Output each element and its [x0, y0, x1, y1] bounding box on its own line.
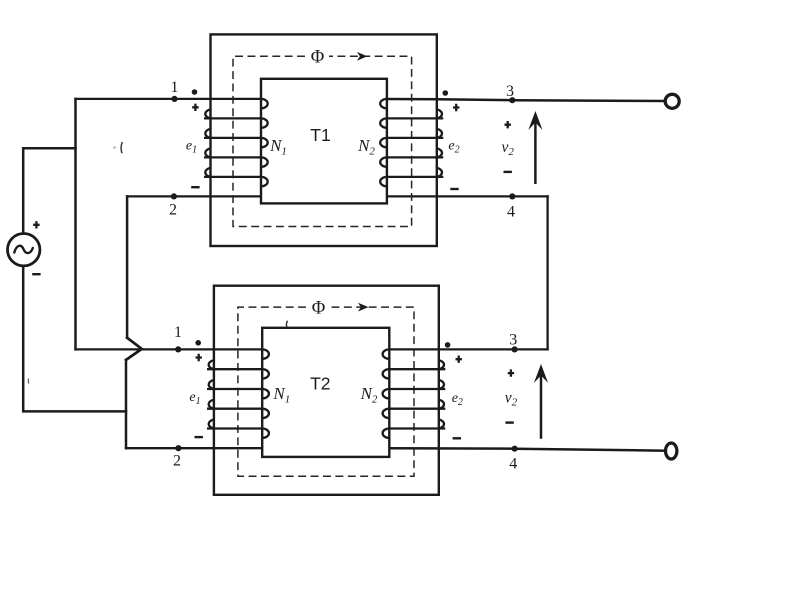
junction dot T2 terminal 2: [175, 445, 181, 451]
T2 secondary - polarity: [453, 437, 461, 439]
wire T1 terminal-4 lead: [387, 195, 548, 197]
transformer T1 outer boundary box: [211, 34, 437, 246]
wire T1 terminal-3 lead to output terminal: [387, 99, 665, 101]
wire T1 terminal-1 lead (node a): [76, 98, 262, 100]
transformer T2 outer boundary box: [214, 286, 439, 495]
T2 primary - polarity: [195, 436, 203, 438]
T1 core box: [261, 79, 387, 204]
T1 output + label: [505, 121, 511, 128]
wire T1 terminal-2 down to bottom node: [126, 196, 129, 337]
stray scan tick above T2 core: [286, 321, 287, 327]
junction dot T1 terminal 1: [171, 96, 177, 102]
svg-text:4: 4: [509, 456, 517, 473]
T2 secondary winding N2 coil: [383, 349, 446, 438]
T1 output - label: [504, 171, 512, 173]
ac voltage source: [8, 234, 40, 266]
junction dot T1 terminal 3: [509, 97, 515, 103]
wire T2 terminal-2 lead: [126, 447, 262, 449]
wire T2 terminal-4 lead to output terminal: [389, 448, 665, 451]
stray scan speck: [113, 146, 116, 149]
T2 primary winding N1 coil: [207, 349, 269, 438]
T1 secondary polarity dot: [443, 90, 449, 96]
T2 secondary + polarity: [456, 356, 462, 363]
T2 output terminal circle: [666, 443, 677, 459]
T1 output terminal circle: [665, 94, 679, 108]
wire T1 terminal-2 lead: [127, 195, 261, 197]
junction dot T2 terminal 3: [511, 346, 517, 352]
T2 primary + polarity: [196, 354, 202, 361]
wire left bus vertical (node 1 bus): [74, 99, 77, 350]
wire T1 terminal-4 down to T2 terminal-3: [546, 196, 548, 349]
junction dot T1 terminal 4: [509, 193, 515, 199]
wire T2 terminal-1 lead: [76, 348, 263, 350]
svg-text:Φ: Φ: [312, 298, 326, 318]
T1 primary winding N1 coil: [204, 99, 268, 186]
svg-text:2: 2: [173, 453, 181, 470]
T2 secondary polarity dot: [445, 342, 451, 348]
wire bottom node vertical to T2 terminal 2: [125, 360, 128, 448]
T1 secondary - polarity: [450, 188, 458, 190]
T1 primary polarity dot: [192, 89, 198, 95]
wire source positive to left bus: [23, 148, 75, 233]
junction dot T2 terminal 4: [511, 446, 517, 452]
T2 core box: [262, 328, 389, 457]
T2 output + label: [508, 369, 514, 376]
T1 secondary winding N2 coil: [380, 99, 443, 186]
junction dot T1 terminal 2: [171, 193, 177, 199]
T2 primary polarity dot: [195, 340, 201, 346]
svg-text:T1: T1: [310, 125, 330, 145]
svg-text:1: 1: [174, 324, 182, 341]
wire crossover hop at T2 terminal 1: [126, 338, 142, 360]
source + label: [33, 221, 39, 228]
T1 primary - polarity: [191, 186, 199, 188]
stray scan tick left margin: [27, 379, 29, 384]
source - label: [32, 273, 40, 275]
svg-text:1: 1: [171, 79, 179, 96]
svg-text:Φ: Φ: [311, 48, 325, 68]
svg-text:3: 3: [509, 332, 517, 349]
T2 output voltage reference arrow: [534, 364, 548, 439]
svg-text:4: 4: [507, 204, 515, 221]
T1 flux direction arrowhead: [358, 53, 366, 60]
T2 output - label: [505, 421, 513, 423]
junction dot T2 terminal 1: [175, 346, 181, 352]
T1 secondary + polarity: [453, 104, 459, 111]
wire T2 terminal-3 lead: [389, 348, 547, 350]
T2 dashed flux path loop: [238, 307, 414, 476]
svg-text:T2: T2: [310, 374, 330, 394]
T2 flux direction arrowhead: [359, 304, 367, 311]
svg-text:2: 2: [169, 202, 177, 219]
T1 primary + polarity: [192, 104, 198, 111]
wire source negative to bottom node: [23, 266, 126, 412]
stray scan mark (parenthesis): [121, 142, 122, 153]
T1 dashed flux path loop: [233, 56, 412, 226]
T1 output voltage reference arrow: [528, 111, 542, 184]
